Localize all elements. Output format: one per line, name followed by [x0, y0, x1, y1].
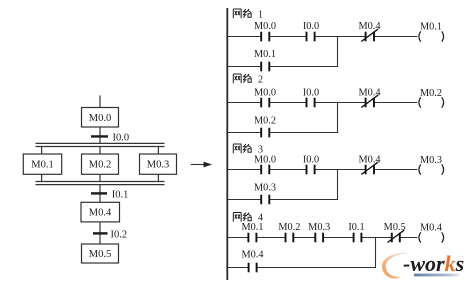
N4 contact M0.2: [278, 222, 300, 243]
N3 contact M0.0: [254, 154, 276, 174]
svg-text:M0.2: M0.2: [89, 160, 111, 171]
parallel branch start double line: [36, 143, 165, 146]
N3 branch contact M0.3: [254, 182, 276, 204]
wire: branch to M0.1: [41, 147, 43, 155]
N3 rung wire segments: [228, 169, 417, 171]
network label 网络 4: [233, 213, 263, 224]
N4 rung wire segments: [228, 237, 417, 239]
svg-text:M0.0: M0.0: [254, 21, 276, 32]
transition I0.1 tick: [91, 192, 107, 194]
N4 coil M0.4: [419, 223, 444, 243]
N2 NC contact M0.4: [358, 87, 380, 107]
svg-text:M0.5: M0.5: [89, 249, 111, 260]
svg-text:M0.4: M0.4: [420, 223, 442, 234]
svg-text:M0.1: M0.1: [420, 22, 442, 33]
svg-text:M0.4: M0.4: [89, 208, 112, 219]
N1 branch wires: [228, 37, 338, 68]
N2 contact M0.0: [254, 87, 276, 107]
svg-text:I0.1: I0.1: [112, 189, 129, 200]
svg-text:M0.0: M0.0: [254, 154, 276, 165]
svg-text:M0.2: M0.2: [254, 115, 276, 126]
N1 coil M0.1: [419, 22, 444, 42]
N1 NC contact M0.4: [358, 21, 380, 42]
svg-text:M0.3: M0.3: [254, 182, 276, 193]
transition I0.2 tick: [93, 232, 108, 234]
svg-text:I0.0: I0.0: [303, 21, 319, 32]
N4 contact M0.1: [241, 222, 263, 243]
svg-text:I0.0: I0.0: [303, 154, 319, 165]
N1 rung wire segments: [228, 36, 417, 38]
network label 网络 3: [233, 144, 263, 156]
step box M0.4: [81, 202, 120, 222]
N3 coil M0.3: [419, 155, 444, 175]
N4 contact M0.3: [308, 222, 330, 243]
svg-text:M0.1: M0.1: [31, 160, 53, 171]
N2 branch contact M0.2: [254, 115, 276, 137]
wire: M0.3 down to branch end: [157, 174, 159, 181]
N4 NC contact M0.5: [384, 222, 406, 243]
N3 branch wires: [228, 170, 338, 201]
svg-text:I0.0: I0.0: [113, 132, 130, 143]
wire: SFC top stub into M0.0: [99, 96, 101, 108]
wire: branch to M0.2: [99, 147, 101, 155]
svg-text:-works: -works: [403, 251, 464, 276]
svg-text:M0.4: M0.4: [241, 250, 263, 261]
svg-text:2: 2: [258, 75, 263, 86]
svg-text:M0.1: M0.1: [241, 222, 263, 233]
svg-text:M0.3: M0.3: [147, 160, 169, 171]
ladder left power rail: [226, 8, 228, 280]
step box M0.2: [82, 154, 119, 174]
N2 branch wires: [228, 103, 338, 134]
e-works logo underline bar: [414, 274, 460, 277]
step box M0.3: [140, 154, 177, 174]
svg-text:M0.0: M0.0: [254, 87, 276, 98]
step box M0.0: [82, 108, 119, 128]
wire: M0.4 down to M0.5: [99, 222, 101, 244]
N2 rung wire segments: [228, 102, 417, 104]
N3 NC contact M0.4: [358, 154, 380, 174]
N3 contact I0.0: [303, 154, 319, 174]
step box M0.1: [23, 154, 61, 174]
svg-text:M0.1: M0.1: [254, 49, 276, 60]
N1 contact I0.0: [303, 21, 319, 42]
svg-text:M0.2: M0.2: [420, 88, 442, 99]
wire: M0.0 down to parallel branch start: [99, 127, 101, 143]
e-works logo swoosh e: [382, 253, 406, 279]
svg-text:I0.0: I0.0: [303, 87, 319, 98]
svg-text:M0.3: M0.3: [308, 222, 330, 233]
N2 contact I0.0: [303, 87, 319, 107]
svg-text:M0.0: M0.0: [89, 113, 111, 124]
arrow from SFC to ladder: [191, 162, 212, 168]
wire: M0.2 down to branch end: [99, 174, 101, 181]
svg-text:M0.3: M0.3: [420, 155, 442, 166]
svg-text:I0.1: I0.1: [348, 222, 364, 233]
wire: branch end down to M0.4: [99, 185, 101, 203]
svg-text:M0.2: M0.2: [278, 222, 300, 233]
N2 coil M0.2: [419, 88, 444, 108]
parallel branch end double line: [36, 182, 165, 185]
network label 网络 2: [233, 74, 263, 86]
svg-text:M0.4: M0.4: [358, 87, 380, 98]
svg-text:M0.4: M0.4: [358, 154, 380, 165]
wire: branch to M0.3: [157, 147, 159, 155]
step box M0.5: [82, 244, 119, 263]
svg-text:1: 1: [258, 10, 263, 21]
N4 contact I0.1: [348, 222, 364, 243]
N1 branch contact M0.1: [254, 49, 276, 72]
network label 网络 1: [233, 9, 263, 21]
N4 branch contact M0.4: [241, 250, 263, 273]
N4 branch wires: [228, 238, 376, 269]
svg-text:I0.2: I0.2: [111, 229, 128, 240]
transition I0.0 tick: [91, 135, 108, 137]
N1 contact M0.0: [254, 21, 276, 42]
wire: M0.1 down to branch end: [41, 174, 43, 181]
